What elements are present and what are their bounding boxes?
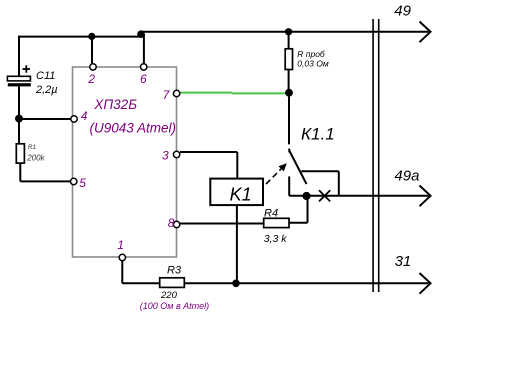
svg-text:0,03 Ом: 0,03 Ом <box>297 59 329 69</box>
svg-text:2: 2 <box>87 72 95 86</box>
svg-text:3,3 k: 3,3 k <box>264 233 288 245</box>
svg-text:31: 31 <box>395 253 412 270</box>
svg-text:220: 220 <box>160 290 178 301</box>
svg-text:1: 1 <box>117 238 124 252</box>
svg-text:49: 49 <box>394 3 411 20</box>
svg-text:5: 5 <box>79 176 86 190</box>
svg-text:ХП32Б: ХП32Б <box>93 97 137 112</box>
svg-text:200k: 200k <box>26 154 45 163</box>
svg-text:R3: R3 <box>167 265 182 277</box>
svg-text:R4: R4 <box>264 208 278 220</box>
svg-text:(U9043 Atmel): (U9043 Atmel) <box>90 121 177 136</box>
svg-text:49a: 49a <box>394 168 419 185</box>
svg-text:4: 4 <box>81 109 88 123</box>
svg-text:2,2µ: 2,2µ <box>35 84 58 96</box>
svg-text:К1.1: К1.1 <box>301 125 335 144</box>
svg-text:3: 3 <box>162 149 169 163</box>
svg-text:R проб: R проб <box>297 49 326 59</box>
svg-text:6: 6 <box>140 72 147 86</box>
svg-text:K1: K1 <box>230 184 252 204</box>
svg-text:R1: R1 <box>28 144 37 151</box>
svg-text:(100 Ом в Atmel): (100 Ом в Atmel) <box>140 301 209 311</box>
svg-text:C11: C11 <box>36 70 55 82</box>
svg-text:8: 8 <box>168 216 175 230</box>
